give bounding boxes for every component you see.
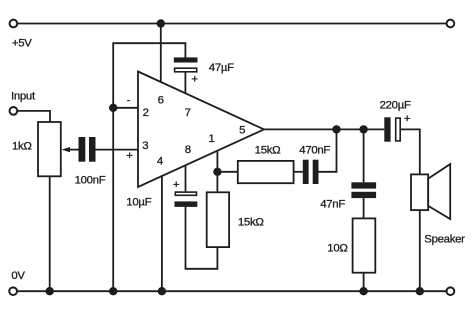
node 0V ground-jog junction: [109, 287, 117, 295]
svg-text:+: +: [126, 150, 133, 162]
svg-text:+: +: [404, 113, 411, 125]
node 0V speaker junction: [416, 287, 424, 295]
svg-text:2: 2: [143, 107, 149, 119]
terminal 0V right: [447, 287, 455, 295]
wire C5 to R4: [363, 198, 365, 218]
wire speaker to 0V: [419, 210, 421, 291]
svg-text:3: 3: [142, 140, 148, 152]
svg-text:1kΩ: 1kΩ: [12, 140, 32, 152]
svg-text:10Ω: 10Ω: [327, 242, 348, 254]
capacitor C4 470nF: [303, 160, 319, 184]
wire input: [18, 111, 50, 122]
svg-text:8: 8: [185, 144, 191, 156]
wire pin 3: [96, 149, 139, 151]
wire zobel drop: [363, 129, 365, 182]
svg-text:4: 4: [157, 156, 163, 168]
wire R3 to C4: [294, 171, 303, 173]
node pin2 ground junction: [109, 104, 117, 112]
svg-text:47nF: 47nF: [320, 199, 345, 211]
wire pin 2: [113, 107, 138, 109]
wire pin 7: [184, 72, 186, 93]
svg-text:47µF: 47µF: [209, 62, 234, 74]
svg-text:470nF: 470nF: [299, 144, 330, 156]
capacitor C6 220uF: [384, 113, 411, 142]
potentiometer VR1 1k body: [38, 122, 61, 176]
svg-text:5: 5: [239, 125, 245, 137]
svg-text:6: 6: [158, 94, 164, 106]
node supply junction: [157, 19, 165, 27]
capacitor C5 47nF: [351, 182, 376, 198]
terminal Input: [10, 107, 18, 115]
node 0V zobel junction: [359, 287, 367, 295]
svg-text:15kΩ: 15kΩ: [238, 216, 264, 228]
resistor R3 15k horizontal: [238, 161, 294, 183]
node 0V pin4 junction: [158, 287, 166, 295]
wire 0V rail: [17, 290, 446, 292]
svg-text:7: 7: [185, 107, 191, 119]
wire pin 8: [185, 166, 187, 191]
node output junction A: [332, 125, 340, 133]
wire pin6 supply: [160, 24, 162, 83]
wire junction to R3: [217, 171, 237, 173]
wire C4 to output: [319, 129, 337, 171]
potentiometer wiper arrow: [62, 147, 79, 152]
terminal +5V right: [447, 20, 455, 28]
resistor R4 10 ohm: [353, 218, 376, 272]
speaker LS1: [411, 164, 450, 219]
svg-text:10µF: 10µF: [126, 197, 151, 209]
svg-text:0V: 0V: [11, 270, 25, 282]
terminal 0V left: [9, 287, 17, 295]
op-amp U1: [138, 72, 264, 188]
wire pot to 0V: [49, 176, 51, 291]
svg-text:+: +: [173, 179, 180, 191]
svg-text:15kΩ: 15kΩ: [255, 144, 281, 156]
svg-text:-: -: [127, 94, 131, 106]
wire ground jog: [113, 43, 185, 291]
capacitor C1 100nF: [79, 137, 96, 162]
svg-text:100nF: 100nF: [75, 174, 106, 186]
svg-text:220µF: 220µF: [380, 100, 411, 112]
node pin1 junction: [213, 168, 221, 176]
svg-text:Input: Input: [11, 90, 36, 102]
svg-text:+: +: [191, 74, 198, 86]
wire R2 top: [216, 172, 218, 193]
wire R4 to 0V: [363, 273, 365, 292]
svg-text:Speaker: Speaker: [424, 233, 465, 245]
wire pin 4 to 0V: [161, 176, 163, 291]
node output junction B: [359, 125, 367, 133]
terminal +5V left: [10, 20, 18, 28]
resistor R2 15k vertical: [207, 192, 229, 247]
wire output: [264, 128, 384, 130]
node 0V pot junction: [46, 287, 54, 295]
capacitor C3 10uF: [173, 179, 197, 207]
capacitor C2 47uF: [174, 57, 199, 85]
wire 220uF to speaker: [401, 129, 420, 174]
svg-text:+5V: +5V: [12, 38, 32, 50]
wire 10uF to R2 bottom: [186, 207, 218, 269]
wire +5V rail: [17, 23, 446, 25]
wire pin 1: [216, 151, 218, 172]
svg-text:1: 1: [208, 133, 214, 145]
